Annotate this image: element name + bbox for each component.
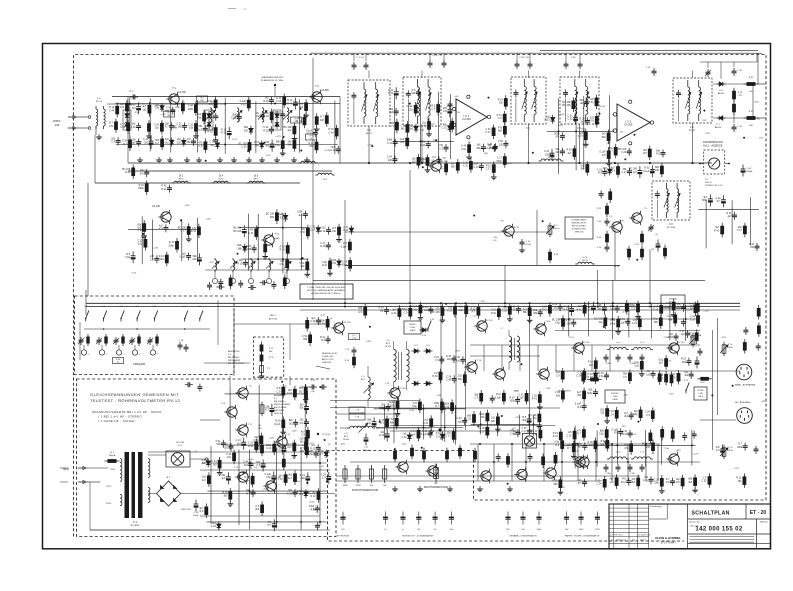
svg-text:5k6: 5k6: [580, 168, 585, 171]
svg-text:C 44: C 44: [320, 323, 326, 326]
svg-text:4.4. TYP: 12, 1: 4.4. TYP: 12, 1: [610, 535, 624, 537]
svg-text:10n: 10n: [227, 456, 232, 459]
svg-text:SCHWELLE EIN-: SCHWELLE EIN-: [572, 229, 586, 231]
svg-text:0,5µ: 0,5µ: [599, 433, 604, 436]
svg-text:STEREO: R1,2,4,5: STEREO: R1,2,4,5: [705, 185, 723, 187]
svg-text:R 41: R 41: [125, 171, 131, 174]
svg-text:R 19: R 19: [237, 262, 243, 265]
svg-text:2k2: 2k2: [299, 390, 304, 393]
svg-text:R 41: R 41: [553, 435, 559, 438]
svg-text:+12V: +12V: [367, 144, 373, 146]
svg-text:R 19: R 19: [491, 312, 497, 315]
svg-text:C 17: C 17: [578, 135, 584, 138]
svg-text:3k3: 3k3: [589, 364, 594, 367]
svg-text:C 9: C 9: [439, 147, 443, 150]
svg-text:1k: 1k: [310, 138, 312, 140]
svg-text:220: 220: [388, 159, 393, 162]
svg-text:220: 220: [177, 141, 182, 144]
svg-text:( 1 BEI 1 mV HF - STEREO: ( 1 BEI 1 mV HF - STEREO: [98, 415, 142, 419]
svg-text:R 12: R 12: [542, 309, 548, 312]
svg-text:220: 220: [480, 416, 485, 419]
svg-text:0,5µ: 0,5µ: [175, 106, 180, 109]
svg-text:P 3: P 3: [228, 354, 231, 356]
svg-text:BC 109: BC 109: [344, 322, 352, 324]
svg-text:R 8: R 8: [598, 172, 602, 175]
svg-text:C 9: C 9: [672, 376, 676, 379]
svg-text:3k3: 3k3: [300, 441, 305, 444]
svg-text:1k2: 1k2: [165, 141, 170, 144]
svg-text:C 52: C 52: [701, 480, 707, 483]
svg-text:3k3: 3k3: [577, 394, 582, 397]
svg-text:BY 42: BY 42: [689, 130, 696, 132]
svg-text:0,1µF: 0,1µF: [657, 377, 664, 380]
svg-text:+12V: +12V: [114, 103, 120, 105]
svg-text:MESSUNG KOM-: MESSUNG KOM-: [322, 353, 337, 355]
svg-text:SPANNUNGSWERTE BEI 1 kV HF: SPANNUNGSWERTE BEI 1 kV HF - MONO: [92, 410, 162, 414]
svg-text:4µ7: 4µ7: [659, 362, 664, 365]
svg-text:DIPOL: DIPOL: [53, 119, 61, 123]
svg-text:(15): (15): [173, 128, 177, 130]
svg-text:+10V: +10V: [356, 426, 362, 428]
svg-text:BC 108: BC 108: [233, 230, 242, 233]
svg-text:NF - AUSGANG: NF - AUSGANG: [735, 401, 751, 404]
svg-text:+4,3V: +4,3V: [446, 106, 452, 108]
svg-text:BEI RÖHRE:-: BEI RÖHRE:-: [274, 400, 286, 403]
svg-text:R 33: R 33: [191, 230, 197, 233]
svg-text:ZF-ABGLEICH 10,7 MHz: ZF-ABGLEICH 10,7 MHz: [261, 79, 283, 82]
svg-text:+42V: +42V: [754, 102, 760, 104]
svg-text:R 33: R 33: [343, 229, 349, 232]
svg-text:Erstanfertigung: Erstanfertigung: [650, 505, 662, 508]
svg-text:500µF: 500µF: [363, 450, 369, 452]
svg-text:C 9: C 9: [623, 376, 627, 379]
svg-text:R 8: R 8: [643, 152, 647, 155]
svg-text:R 76: R 76: [269, 357, 273, 359]
svg-text:1n5: 1n5: [213, 463, 218, 466]
svg-text:R 41: R 41: [714, 229, 720, 232]
svg-text:R 8: R 8: [200, 510, 204, 513]
svg-text:C 52: C 52: [241, 146, 247, 149]
svg-text:FILTER: FILTER: [697, 390, 704, 392]
svg-text:1µ0: 1µ0: [677, 307, 682, 310]
svg-text:1,5V: 1,5V: [311, 509, 316, 511]
svg-text:BEI ZEIGER-: BEI ZEIGER-: [228, 357, 240, 359]
svg-text:1µ0: 1µ0: [411, 161, 416, 164]
svg-text:AF 106: AF 106: [178, 91, 186, 94]
svg-text:Dr 5: Dr 5: [254, 175, 259, 178]
svg-text:1k2: 1k2: [155, 127, 160, 130]
svg-text:RATOR AN-: RATOR AN-: [274, 409, 284, 412]
svg-text:I C 1: I C 1: [463, 114, 469, 118]
svg-text:+1,2V: +1,2V: [281, 386, 287, 388]
svg-text:BUCHSE, EINSTELLEN. P T A/B: BUCHSE, EINSTELLEN. P T A/B max: [311, 292, 341, 295]
svg-text:C 4 C 8: C 4 C 8: [356, 57, 364, 59]
svg-text:0,5µ: 0,5µ: [458, 309, 463, 312]
svg-text:220: 220: [499, 143, 504, 146]
svg-text:+4,3V: +4,3V: [210, 101, 216, 103]
svg-text:C 9: C 9: [436, 435, 440, 438]
svg-text:0,1µF: 0,1µF: [274, 423, 281, 426]
svg-text:C 9: C 9: [390, 125, 394, 128]
svg-text:-12V: -12V: [621, 426, 626, 428]
svg-text:-12V: -12V: [430, 124, 435, 126]
svg-text:1n: 1n: [384, 529, 386, 531]
svg-text:C 44: C 44: [329, 131, 335, 134]
svg-text:2k2: 2k2: [160, 258, 165, 261]
svg-text:+1,2V: +1,2V: [733, 468, 739, 470]
svg-text:C 17: C 17: [737, 229, 743, 232]
svg-text:R 12: R 12: [310, 495, 316, 498]
svg-text:STYROFLEX: STYROFLEX: [337, 536, 350, 538]
svg-text:3k3: 3k3: [688, 481, 693, 484]
svg-text:1k2: 1k2: [143, 108, 148, 111]
svg-text:1µ0: 1µ0: [358, 310, 363, 313]
svg-text:(1): (1): [258, 425, 261, 427]
svg-text:C 17: C 17: [522, 430, 528, 433]
svg-text:220: 220: [555, 151, 560, 154]
svg-text:4µ7: 4µ7: [727, 215, 732, 218]
svg-text:0,5µ: 0,5µ: [461, 148, 466, 151]
svg-text:1µ0: 1µ0: [221, 477, 226, 480]
svg-text:220: 220: [192, 258, 197, 261]
svg-text:DRAHTWIDERSTAND: DRAHTWIDERSTAND: [424, 486, 448, 489]
svg-text:1 EIN: 1 EIN: [410, 327, 416, 329]
svg-text:AUF 0,8 SCHALT: AUF 0,8 SCHALT: [572, 225, 587, 228]
svg-text:R 19: R 19: [379, 434, 385, 437]
svg-text:R 7: R 7: [265, 409, 269, 412]
svg-text:BV 43: BV 43: [96, 101, 103, 103]
svg-text:C 9: C 9: [322, 477, 326, 480]
svg-text:AUF 30 GENE-: AUF 30 GENE-: [274, 406, 287, 409]
svg-text:0,1µF: 0,1µF: [309, 229, 316, 232]
svg-text:C 52: C 52: [502, 310, 508, 313]
svg-text:1,5V: 1,5V: [514, 390, 519, 392]
svg-text:56k: 56k: [167, 115, 170, 117]
svg-text:C 31: C 31: [387, 142, 393, 145]
svg-text:50r: 50r: [434, 529, 437, 531]
svg-text:0,5µ: 0,5µ: [125, 256, 130, 259]
svg-text:R 33: R 33: [264, 115, 270, 118]
svg-text:R 41: R 41: [421, 125, 427, 128]
svg-text:C 17: C 17: [479, 430, 485, 433]
svg-text:BC 108: BC 108: [431, 311, 440, 314]
svg-text:1,5V: 1,5V: [581, 129, 586, 131]
svg-text:(1): (1): [328, 444, 331, 446]
svg-text:R 41: R 41: [322, 264, 328, 267]
svg-text:1µ0: 1µ0: [635, 365, 640, 368]
svg-text:T 27a: T 27a: [568, 337, 574, 339]
svg-text:(15): (15): [484, 153, 488, 155]
svg-text:+42V: +42V: [185, 205, 191, 207]
svg-text:C 34: C 34: [571, 57, 576, 59]
svg-text:C 52: C 52: [568, 118, 574, 121]
svg-text:R 7: R 7: [319, 453, 323, 456]
svg-text:+13V: +13V: [409, 410, 415, 412]
svg-text:BC 108: BC 108: [399, 388, 407, 390]
svg-text:R 33: R 33: [263, 100, 269, 103]
svg-text:AA 116: AA 116: [715, 126, 722, 129]
svg-text:0,2V: 0,2V: [632, 434, 637, 436]
svg-text:R 19: R 19: [221, 132, 227, 135]
svg-text:C 24: C 24: [276, 100, 282, 103]
svg-text:0,5µ: 0,5µ: [120, 126, 125, 129]
svg-text:R 41: R 41: [296, 120, 302, 123]
svg-text:-12V: -12V: [560, 114, 565, 116]
svg-text:27.10.69 Gotl.: 27.10.69 Gotl.: [638, 534, 651, 537]
svg-text:C 17: C 17: [446, 435, 452, 438]
svg-text:NBC 1: NBC 1: [270, 315, 277, 317]
svg-text:R 41: R 41: [420, 144, 426, 147]
svg-text:C 31: C 31: [248, 232, 254, 235]
svg-text:1,5V: 1,5V: [302, 445, 307, 447]
svg-text:0,2V: 0,2V: [266, 155, 271, 157]
svg-text:5k6: 5k6: [602, 136, 607, 139]
svg-text:BC 160: BC 160: [583, 342, 591, 344]
svg-text:1,5V: 1,5V: [232, 139, 237, 141]
svg-text:6V 0,1A: 6V 0,1A: [176, 441, 184, 444]
svg-text:STUTTGART: STUTTGART: [660, 540, 676, 544]
svg-text:BF 41: BF 41: [366, 133, 373, 135]
svg-text:C 9: C 9: [404, 311, 408, 314]
svg-text:C 17: C 17: [690, 307, 696, 310]
svg-text:4µ7: 4µ7: [288, 477, 293, 480]
svg-text:R 19: R 19: [653, 309, 659, 312]
svg-text:C 24: C 24: [391, 312, 397, 315]
svg-text:1µ0: 1µ0: [298, 214, 303, 217]
svg-text:C 76: C 76: [355, 410, 359, 412]
svg-text:SW: N: SW: N: [705, 182, 712, 184]
svg-text:C 31: C 31: [442, 127, 448, 130]
svg-text:R 41: R 41: [320, 230, 326, 233]
svg-text:C 31: C 31: [690, 319, 696, 322]
svg-text:C 44: C 44: [109, 109, 115, 112]
svg-text:BC 108: BC 108: [316, 119, 325, 122]
svg-text:+1,2V: +1,2V: [692, 454, 698, 456]
svg-text:1,5V: 1,5V: [669, 394, 674, 396]
svg-text:(15): (15): [134, 112, 138, 114]
svg-text:+1,2V: +1,2V: [703, 311, 709, 313]
svg-text:220V~: 220V~: [110, 469, 117, 471]
svg-text:+4,3V: +4,3V: [309, 501, 315, 503]
svg-text:50k lin: 50k lin: [727, 347, 733, 349]
svg-text:2k2: 2k2: [580, 121, 585, 124]
svg-text:100k: 100k: [737, 446, 743, 449]
svg-text:C 17: C 17: [621, 171, 627, 174]
svg-text:+4,3V: +4,3V: [420, 159, 426, 161]
svg-text:P T MHz - PEGEL, BEI 1 kHz: P T MHz - PEGEL, BEI 1 kHz UND 40 kHz MU…: [307, 287, 345, 289]
svg-text:0,1µF: 0,1µF: [341, 245, 348, 248]
svg-text:500p: 500p: [587, 392, 593, 395]
svg-text:R 33: R 33: [263, 129, 269, 132]
svg-text:GLEICHSPANNUNGEN GEMESSEN MI: GLEICHSPANNUNGEN GEMESSEN MIT: [90, 392, 179, 397]
svg-text:220: 220: [300, 450, 305, 453]
svg-text:220: 220: [332, 230, 337, 233]
svg-text:SCHALTPLAN: SCHALTPLAN: [692, 511, 730, 517]
svg-text:R 75: R 75: [269, 348, 273, 350]
svg-text:( 15 ): ( 15 ): [493, 240, 498, 242]
svg-text:C 21: C 21: [138, 230, 144, 232]
svg-text:+10V: +10V: [401, 443, 407, 445]
svg-text:DISKRIMINATOR: DISKRIMINATOR: [703, 141, 723, 144]
svg-text:+12V: +12V: [545, 388, 551, 390]
svg-text:BC 160: BC 160: [678, 342, 686, 344]
svg-text:5k6: 5k6: [301, 477, 306, 480]
svg-text:0,1µF: 0,1µF: [495, 396, 502, 399]
svg-text:C 52: C 52: [300, 231, 306, 234]
svg-text:R 7: R 7: [472, 311, 476, 314]
svg-text:240: 240: [55, 123, 60, 127]
svg-text:CA 309: CA 309: [624, 124, 633, 127]
svg-text:100k: 100k: [165, 110, 171, 113]
svg-text:1 EIN: 1 EIN: [613, 396, 618, 398]
svg-text:CHASSISBUCHSE FÜR: CHASSISBUCHSE FÜR: [261, 76, 283, 79]
svg-text:13 kHz: 13 kHz: [343, 439, 349, 441]
svg-text:Dr 2: Dr 2: [179, 175, 184, 178]
svg-text:C 9: C 9: [646, 414, 650, 417]
svg-text:+10V: +10V: [455, 350, 461, 352]
svg-text:C 24: C 24: [211, 525, 217, 528]
svg-text:Maßstab: Maßstab: [760, 521, 769, 524]
svg-text:C 9: C 9: [435, 359, 439, 362]
svg-text:R 12: R 12: [621, 481, 627, 484]
svg-text:PL AUF +42V: PL AUF +42V: [322, 355, 334, 358]
svg-text:2,2k: 2,2k: [352, 338, 356, 340]
svg-text:C 31: C 31: [447, 310, 453, 313]
svg-text:1n5: 1n5: [424, 309, 429, 312]
svg-text:AF 239: AF 239: [152, 205, 160, 208]
svg-text:C 9: C 9: [111, 141, 115, 144]
svg-text:100k: 100k: [188, 108, 194, 111]
svg-text:C 44: C 44: [585, 306, 591, 309]
svg-text:C 24: C 24: [621, 151, 627, 154]
svg-text:R 33: R 33: [588, 376, 594, 379]
svg-text:220: 220: [276, 114, 281, 117]
svg-text:+1,2V: +1,2V: [320, 315, 326, 317]
svg-text:500p: 500p: [496, 160, 502, 163]
svg-text:4µ7: 4µ7: [578, 446, 583, 449]
svg-text:R 33: R 33: [622, 433, 628, 436]
svg-text:C 9: C 9: [301, 434, 305, 437]
svg-text:1k2: 1k2: [598, 321, 603, 324]
svg-text:ANSCHLUSS: ANSCHLUSS: [228, 350, 240, 353]
svg-text:BC 109: BC 109: [486, 320, 494, 322]
svg-text:R 33: R 33: [668, 336, 674, 339]
svg-text:+42V: +42V: [676, 450, 682, 452]
svg-text:1µ0: 1µ0: [255, 448, 260, 451]
svg-text:(1): (1): [441, 168, 444, 170]
svg-text:FREQWAT: FREQWAT: [133, 363, 146, 366]
svg-text:3k3: 3k3: [201, 462, 206, 465]
svg-text:3k3: 3k3: [522, 419, 527, 422]
svg-text:INSTRUMENT: INSTRUMENT: [228, 360, 241, 362]
svg-text:BC 108: BC 108: [651, 169, 660, 172]
svg-text:1n5: 1n5: [198, 128, 203, 131]
svg-text:R 8: R 8: [132, 107, 136, 110]
svg-text:RZ 1644: RZ 1644: [667, 227, 676, 229]
svg-text:EINSTELLER P1: EINSTELLER P1: [572, 223, 586, 225]
svg-text:0,1µF: 0,1µF: [179, 256, 186, 259]
svg-text:+4,3V: +4,3V: [622, 312, 628, 314]
svg-text:220: 220: [244, 129, 249, 132]
svg-text:0,5µ: 0,5µ: [412, 405, 417, 408]
svg-text:+12V: +12V: [649, 249, 655, 251]
svg-text:C 44: C 44: [310, 320, 316, 323]
svg-text:C 9: C 9: [199, 145, 203, 148]
svg-text:1 AUS: 1 AUS: [612, 398, 618, 401]
svg-text:C 9: C 9: [716, 449, 720, 452]
svg-text:C 9: C 9: [631, 307, 635, 310]
svg-text:MONO: MONO: [409, 324, 416, 326]
svg-text:D 10: D 10: [422, 335, 426, 337]
svg-text:C 36A: C 36A: [605, 362, 611, 365]
svg-text:KERAMIK - KONDENSATOR: KERAMIK - KONDENSATOR: [509, 535, 537, 538]
svg-text:(15): (15): [456, 112, 460, 114]
svg-text:C 44: C 44: [486, 147, 492, 150]
svg-text:R 7: R 7: [165, 126, 169, 129]
svg-text:4µ7: 4µ7: [567, 152, 572, 155]
svg-text:142 000 155 02: 142 000 155 02: [695, 527, 743, 533]
svg-text:10n: 10n: [287, 446, 292, 449]
svg-text:BC 108: BC 108: [562, 104, 571, 107]
svg-text:680: 680: [269, 351, 272, 353]
svg-text:( 1 OHNE HF - SIGNAL: ( 1 OHNE HF - SIGNAL: [98, 419, 135, 423]
svg-text:1n5: 1n5: [610, 481, 615, 484]
svg-text:85 fe: 85 fe: [179, 178, 185, 180]
svg-text:TELETEST - RÖHRENVOLTMETER RV: TELETEST - RÖHRENVOLTMETER RV-12: [90, 398, 181, 403]
svg-text:R 8: R 8: [666, 481, 670, 484]
svg-text:127V~: 127V~: [106, 486, 113, 488]
svg-text:C 9: C 9: [498, 117, 502, 120]
svg-text:+4,3V: +4,3V: [614, 266, 620, 268]
svg-text:BC 98: BC 98: [513, 227, 520, 229]
svg-text:AA 116: AA 116: [718, 92, 725, 95]
svg-text:+10V: +10V: [705, 133, 711, 135]
svg-text:BV 28: BV 28: [548, 157, 555, 159]
svg-text:0,1µF: 0,1µF: [421, 433, 428, 436]
svg-text:C 26b: C 26b: [605, 473, 610, 475]
svg-text:(AM): (AM): [275, 237, 280, 240]
svg-text:1n5: 1n5: [120, 106, 125, 109]
svg-text:BF 194: BF 194: [440, 161, 448, 163]
svg-text:R 7: R 7: [577, 433, 581, 436]
svg-text:1k2: 1k2: [289, 422, 294, 425]
svg-text:PAPIER - FOLIEN - KONDENSATOR: PAPIER - FOLIEN - KONDENSATOR: [565, 535, 600, 538]
svg-text:P 7 b: P 7 b: [728, 447, 734, 449]
svg-text:T 27b: T 27b: [573, 451, 579, 453]
svg-text:C 31: C 31: [463, 165, 469, 168]
svg-text:+4,3V: +4,3V: [599, 106, 605, 108]
svg-text:+12V: +12V: [560, 487, 566, 489]
svg-text:+42V: +42V: [436, 395, 442, 397]
svg-text:+42V: +42V: [269, 438, 275, 440]
svg-text:C 24: C 24: [609, 413, 615, 416]
svg-text:500p: 500p: [169, 244, 175, 247]
svg-text:Änderung: Änderung: [616, 539, 626, 542]
svg-text:5k6: 5k6: [389, 111, 394, 114]
svg-text:1,5V: 1,5V: [154, 105, 159, 107]
svg-text:C 24: C 24: [576, 375, 582, 378]
svg-text:MUTING: MUTING: [611, 393, 619, 395]
svg-text:T 25a: T 25a: [545, 321, 551, 323]
svg-text:0,5µ: 0,5µ: [308, 453, 313, 456]
svg-text:+13V: +13V: [291, 431, 297, 433]
svg-text:200mA: 200mA: [109, 454, 116, 457]
svg-text:1,5V: 1,5V: [257, 428, 262, 430]
svg-text:500p: 500p: [702, 199, 708, 202]
svg-text:+12V: +12V: [439, 373, 445, 375]
svg-text:AM NT CON-: AM NT CON-: [322, 358, 334, 361]
svg-text:0,2V: 0,2V: [309, 443, 314, 445]
